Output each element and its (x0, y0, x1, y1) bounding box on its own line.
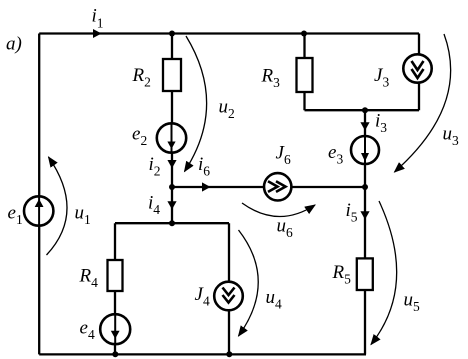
svg-text:R2: R2 (132, 65, 151, 90)
svg-text:i6: i6 (198, 154, 210, 179)
svg-text:e4: e4 (80, 318, 95, 343)
svg-text:i1: i1 (92, 6, 104, 31)
svg-text:u5: u5 (404, 290, 421, 315)
svg-text:R3: R3 (261, 66, 281, 91)
svg-text:u4: u4 (266, 287, 283, 312)
svg-text:e1: e1 (8, 203, 23, 228)
svg-text:i5: i5 (346, 200, 358, 225)
svg-text:a): a) (6, 34, 22, 55)
svg-text:J4: J4 (195, 284, 210, 309)
svg-text:R5: R5 (332, 262, 352, 287)
svg-text:i2: i2 (149, 154, 161, 179)
svg-text:u2: u2 (219, 97, 235, 122)
svg-text:i3: i3 (375, 111, 387, 136)
svg-text:e3: e3 (328, 142, 343, 167)
svg-text:J3: J3 (374, 65, 389, 90)
svg-text:J6: J6 (276, 143, 291, 168)
svg-text:R4: R4 (79, 266, 99, 291)
svg-text:u6: u6 (277, 216, 294, 241)
svg-text:i4: i4 (148, 193, 160, 218)
svg-text:e2: e2 (132, 124, 147, 149)
svg-text:u1: u1 (75, 203, 91, 228)
svg-text:u3: u3 (443, 124, 460, 149)
